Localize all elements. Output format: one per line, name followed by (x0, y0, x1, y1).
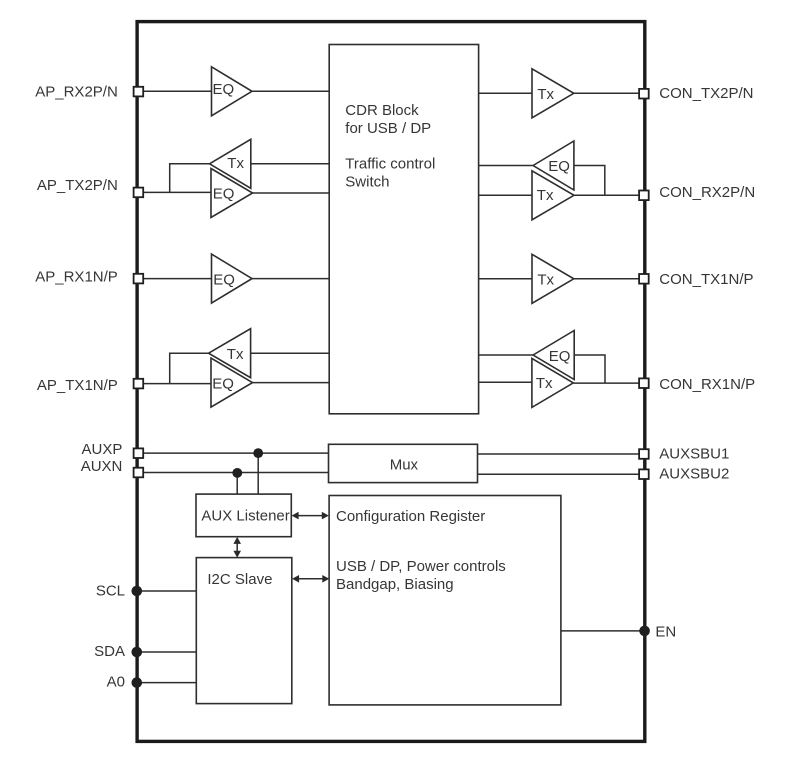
svg-text:Tx: Tx (537, 86, 554, 103)
svg-text:Tx: Tx (537, 272, 554, 289)
svg-text:USB / DP, Power controls: USB / DP, Power controls (336, 558, 506, 575)
svg-text:Tx: Tx (536, 375, 553, 392)
svg-text:CON_RX1N/P: CON_RX1N/P (659, 376, 755, 393)
svg-text:AUXSBU1: AUXSBU1 (659, 446, 729, 463)
svg-text:Configuration Register: Configuration Register (336, 508, 485, 525)
svg-text:AUXN: AUXN (81, 458, 123, 475)
svg-text:EQ: EQ (212, 376, 234, 393)
svg-text:SCL: SCL (96, 583, 125, 600)
svg-text:Mux: Mux (390, 456, 419, 473)
svg-text:AP_RX2P/N: AP_RX2P/N (35, 83, 118, 100)
svg-text:Bandgap, Biasing: Bandgap, Biasing (336, 576, 454, 593)
svg-text:AP_TX1N/P: AP_TX1N/P (37, 377, 118, 394)
svg-text:CON_TX2P/N: CON_TX2P/N (659, 85, 753, 102)
svg-text:CON_RX2P/N: CON_RX2P/N (659, 184, 755, 201)
svg-text:CDR Block: CDR Block (345, 102, 419, 119)
svg-text:AUXSBU2: AUXSBU2 (659, 466, 729, 483)
svg-text:CON_TX1N/P: CON_TX1N/P (659, 271, 753, 288)
svg-text:EQ: EQ (213, 272, 235, 289)
svg-text:Tx: Tx (227, 155, 244, 172)
svg-text:SDA: SDA (94, 643, 125, 660)
svg-text:Tx: Tx (227, 346, 244, 363)
svg-text:AP_RX1N/P: AP_RX1N/P (35, 269, 118, 286)
svg-text:A0: A0 (107, 674, 125, 691)
svg-text:AP_TX2P/N: AP_TX2P/N (37, 177, 118, 194)
svg-text:Switch: Switch (345, 173, 389, 190)
svg-text:EQ: EQ (549, 348, 571, 365)
svg-text:EN: EN (655, 624, 676, 641)
svg-text:EQ: EQ (548, 158, 570, 175)
svg-text:for USB / DP: for USB / DP (345, 120, 431, 137)
svg-text:Traffic control: Traffic control (345, 155, 435, 172)
svg-text:I2C Slave: I2C Slave (207, 571, 272, 588)
svg-text:AUX Listener: AUX Listener (201, 508, 289, 525)
svg-text:AUXP: AUXP (82, 441, 123, 458)
svg-text:EQ: EQ (213, 81, 235, 98)
svg-text:EQ: EQ (213, 186, 235, 203)
svg-text:Tx: Tx (537, 187, 554, 204)
